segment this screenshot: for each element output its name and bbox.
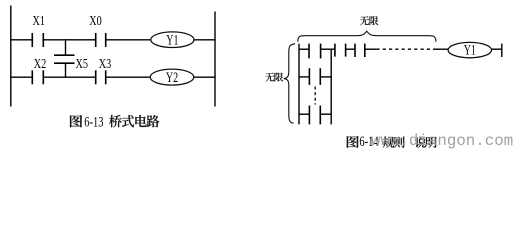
label 无限 (left, unlimited parallel) [265, 73, 274, 82]
wire: coil Y1 to right rail [492, 48, 502, 50]
wire rung1: X1 to X0 [43, 39, 95, 41]
coil Y2 (fig 6-13) [150, 69, 194, 85]
label 无限 (top, unlimited series) [360, 16, 369, 25]
svg-text:Y1: Y1 [166, 32, 178, 48]
svg-text:X0: X0 [89, 12, 101, 28]
right power rail stub (fig 6-14) [501, 44, 503, 57]
svg-text:X2: X2 [34, 55, 46, 71]
wire rung2: X2 to X3 [43, 76, 95, 78]
wire rung1: coil Y1 to right rail [194, 39, 216, 41]
svg-text:X1: X1 [33, 12, 45, 28]
svg-text:6-13: 6-13 [84, 112, 103, 129]
caption fig 6-13 [70, 112, 159, 129]
wire rung2: X3 to coil Y2 [106, 76, 151, 78]
wire rung: rail to contact 1 [299, 48, 309, 50]
parallel branch 3: right wire [320, 113, 331, 115]
svg-text:Y2: Y2 [166, 69, 178, 85]
wire rung: contact1 to contact2 [321, 48, 335, 50]
parallel branch 3: left wire [299, 113, 309, 115]
wire rung1: X0 to coil Y1 [106, 39, 151, 41]
left curly brace (unlimited parallel) [284, 44, 295, 123]
contact 1 (series, doubles as parallel column top) [309, 44, 321, 59]
caption fig 6-14 [347, 132, 437, 149]
wire: dashes to coil Y1 [433, 48, 448, 50]
wire rung2: coil Y2 to right rail [194, 76, 216, 78]
dashed vertical (unlimited parallel continuation) [314, 87, 316, 105]
svg-text:X5: X5 [76, 55, 88, 71]
dashed wire (unlimited continuation) [376, 48, 433, 50]
svg-text:Y1: Y1 [464, 42, 476, 58]
svg-text:www.diangon.com: www.diangon.com [371, 132, 513, 150]
wire rung: contact3 onward [365, 48, 377, 50]
wire rung: contact2 to contact3 [346, 48, 355, 50]
contact X3 [96, 70, 106, 84]
overbrace for series contacts [298, 31, 436, 42]
right power rail (fig 6-13) [214, 12, 216, 107]
vertical junction wire after contact 1 [330, 49, 332, 124]
parallel branch 3 contact [309, 106, 320, 125]
wire: X5 down to rung2 [65, 63, 67, 78]
wire rung2: rail to X2 [10, 76, 32, 78]
contact 2 (series) [335, 44, 346, 57]
svg-text:X3: X3 [99, 55, 111, 71]
contact X5 (vertical, plates) [54, 55, 75, 63]
left power rail (fig 6-14) [298, 44, 300, 125]
coil Y1 (fig 6-13) [151, 32, 194, 48]
wire rung1: rail to X1 [10, 39, 32, 41]
contact X0 [96, 33, 106, 47]
contact X2 [32, 70, 43, 84]
contact 3 (series) [355, 44, 365, 57]
parallel branch 2: left wire [299, 76, 309, 78]
parallel branch 2 contact [309, 68, 320, 85]
contact X1 [32, 33, 43, 47]
wire: vertical branch from rung1 down to X5 [65, 39, 67, 55]
left power rail (fig 6-13) [10, 6, 12, 107]
coil Y1 (fig 6-14) [448, 42, 491, 57]
parallel branch 2: right wire [320, 76, 331, 78]
